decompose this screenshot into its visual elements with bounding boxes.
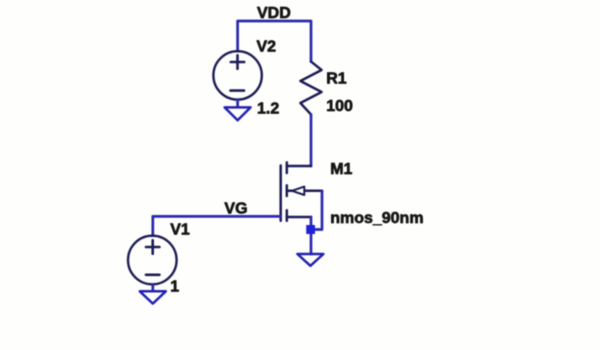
svg-text:V2: V2: [257, 38, 277, 55]
wire M1 source down to ground: [310, 217, 313, 254]
ground below V1: [140, 291, 166, 303]
transistor M1 source lead: [287, 216, 311, 219]
transistor M1 drain contact bar: [286, 162, 289, 173]
transistor M1 bulk arrow: [292, 187, 304, 195]
svg-text:VG: VG: [224, 201, 247, 218]
svg-text:100: 100: [326, 98, 353, 115]
wire R1 bottom to M1 drain: [310, 115, 313, 167]
ground below V2: [225, 107, 251, 120]
ground below M1: [297, 254, 323, 266]
svg-text:R1: R1: [326, 71, 347, 88]
svg-text:VDD: VDD: [257, 5, 291, 22]
transistor M1 source contact bar: [286, 210, 289, 221]
svg-text:V1: V1: [170, 222, 190, 239]
voltage source V1 circle: [128, 236, 177, 285]
wire V1 bottom stub: [151, 284, 154, 291]
voltage source V2 circle: [213, 51, 261, 99]
svg-text:1: 1: [170, 279, 179, 296]
wire bulk return to source node: [311, 191, 322, 230]
V2 plus sign: [231, 55, 244, 68]
V2 minus sign: [231, 89, 245, 92]
transistor M1 gate bar: [279, 166, 282, 221]
svg-text:nmos_90nm: nmos_90nm: [330, 210, 423, 227]
transistor M1 bulk contact bar: [286, 185, 289, 196]
transistor M1 bulk lead: [287, 190, 322, 193]
svg-text:M1: M1: [330, 161, 352, 178]
resistor R1 zigzag: [300, 62, 321, 115]
V1 minus sign: [146, 273, 159, 276]
svg-text:1.2: 1.2: [257, 101, 279, 118]
V1 plus sign: [146, 240, 159, 253]
wire VDD rail: V2 top to R1 top: [238, 21, 311, 62]
junction node source-bulk: [306, 225, 315, 234]
transistor M1 drain lead: [287, 165, 311, 168]
wire V2 bottom stub: [236, 100, 239, 107]
wire VG: V1 top to M1 gate: [153, 216, 281, 235]
